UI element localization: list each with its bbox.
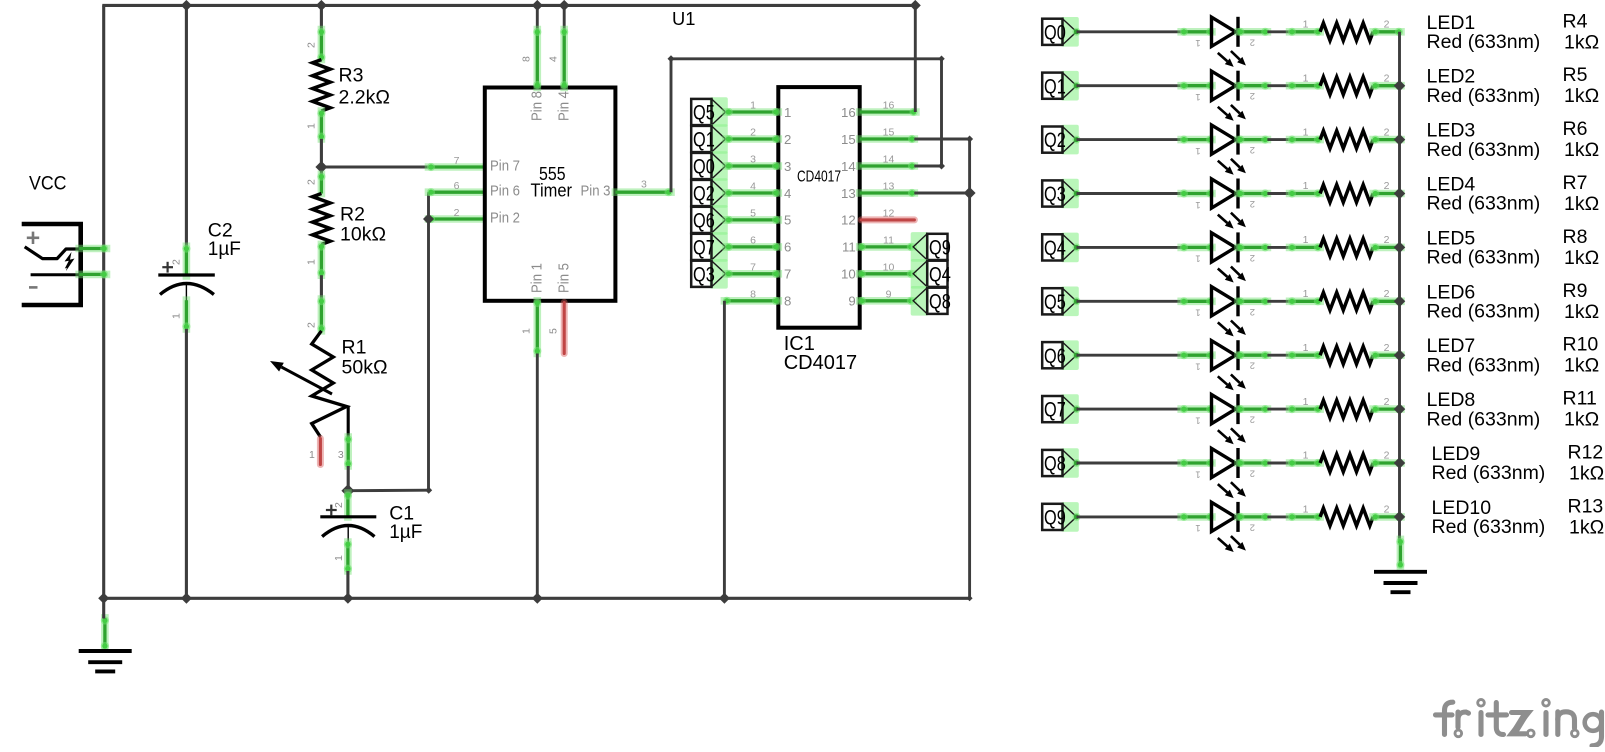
svg-text:3: 3 — [784, 159, 791, 174]
svg-text:6: 6 — [454, 180, 460, 192]
svg-text:2: 2 — [1384, 72, 1390, 84]
svg-text:R2: R2 — [340, 204, 365, 226]
svg-text:1kΩ: 1kΩ — [1569, 516, 1604, 538]
svg-text:2: 2 — [1384, 450, 1390, 462]
svg-text:Q3: Q3 — [693, 263, 715, 286]
svg-text:2: 2 — [1250, 306, 1255, 317]
svg-text:5: 5 — [547, 328, 559, 334]
svg-text:Pin 7: Pin 7 — [490, 157, 520, 174]
svg-text:4: 4 — [784, 186, 791, 201]
svg-text:5: 5 — [750, 207, 756, 219]
svg-text:9: 9 — [886, 288, 892, 300]
svg-text:2: 2 — [1250, 521, 1255, 532]
svg-text:1: 1 — [1195, 307, 1200, 318]
svg-text:Red (633nm): Red (633nm) — [1432, 516, 1546, 538]
svg-text:CD4017: CD4017 — [784, 352, 857, 374]
svg-text:10: 10 — [883, 261, 895, 273]
svg-text:1kΩ: 1kΩ — [1569, 463, 1604, 485]
svg-text:Q9: Q9 — [1044, 507, 1066, 530]
svg-text:Q4: Q4 — [1044, 237, 1066, 260]
svg-text:3: 3 — [338, 449, 344, 461]
svg-text:Q0: Q0 — [1044, 21, 1066, 44]
svg-text:2: 2 — [171, 259, 183, 265]
svg-text:1: 1 — [1303, 72, 1309, 84]
svg-text:2: 2 — [1250, 198, 1255, 209]
svg-text:1: 1 — [1195, 414, 1200, 425]
svg-text:2: 2 — [306, 42, 318, 48]
svg-text:R6: R6 — [1563, 118, 1588, 140]
svg-text:Pin 8: Pin 8 — [529, 91, 546, 121]
svg-text:Pin 4: Pin 4 — [555, 91, 572, 121]
svg-text:1: 1 — [1195, 253, 1200, 264]
svg-text:12: 12 — [883, 207, 895, 219]
svg-text:2: 2 — [750, 127, 756, 139]
svg-text:1: 1 — [1303, 19, 1309, 31]
svg-text:2: 2 — [306, 322, 318, 328]
svg-text:3: 3 — [750, 154, 756, 166]
svg-text:2: 2 — [1250, 36, 1255, 47]
svg-text:R13: R13 — [1568, 495, 1604, 517]
svg-text:5: 5 — [784, 213, 791, 228]
svg-text:Q4: Q4 — [929, 263, 951, 286]
svg-text:1: 1 — [1303, 342, 1309, 354]
svg-text:2: 2 — [454, 207, 460, 219]
svg-text:2: 2 — [1384, 342, 1390, 354]
svg-text:8: 8 — [750, 288, 756, 300]
svg-text:Red (633nm): Red (633nm) — [1427, 193, 1541, 215]
svg-text:9: 9 — [848, 294, 855, 309]
svg-text:VCC: VCC — [29, 174, 67, 195]
svg-text:1: 1 — [784, 105, 791, 120]
svg-text:10kΩ: 10kΩ — [340, 224, 386, 246]
svg-text:16: 16 — [841, 105, 856, 120]
svg-text:1: 1 — [1303, 288, 1309, 300]
svg-text:Red (633nm): Red (633nm) — [1427, 408, 1541, 430]
svg-text:2: 2 — [1384, 396, 1390, 408]
svg-text:R11: R11 — [1563, 388, 1597, 410]
svg-text:1: 1 — [1195, 199, 1200, 210]
svg-text:Red (633nm): Red (633nm) — [1427, 247, 1541, 269]
svg-text:Red (633nm): Red (633nm) — [1427, 301, 1541, 323]
svg-text:R4: R4 — [1563, 10, 1588, 32]
svg-text:1: 1 — [1195, 468, 1200, 479]
svg-text:1: 1 — [1303, 396, 1309, 408]
svg-text:1: 1 — [1195, 361, 1200, 372]
svg-text:4: 4 — [547, 56, 559, 62]
svg-text:12: 12 — [841, 213, 856, 228]
svg-text:2: 2 — [1384, 19, 1390, 31]
svg-text:Pin 5: Pin 5 — [555, 263, 572, 293]
svg-text:Q9: Q9 — [929, 237, 951, 260]
svg-text:2: 2 — [1384, 126, 1390, 138]
svg-text:R10: R10 — [1563, 334, 1599, 356]
svg-text:CD4017: CD4017 — [797, 169, 841, 186]
svg-text:2: 2 — [1384, 288, 1390, 300]
svg-text:7: 7 — [784, 267, 791, 282]
svg-text:1: 1 — [1195, 145, 1200, 156]
svg-text:1: 1 — [521, 328, 533, 334]
svg-text:Red (633nm): Red (633nm) — [1432, 462, 1546, 484]
svg-text:Q8: Q8 — [929, 290, 951, 313]
svg-text:8: 8 — [521, 56, 533, 62]
svg-text:1: 1 — [1195, 37, 1200, 48]
svg-text:Q7: Q7 — [1044, 399, 1066, 422]
svg-text:11: 11 — [883, 234, 894, 246]
svg-text:2: 2 — [1250, 360, 1255, 371]
svg-text:1kΩ: 1kΩ — [1564, 355, 1599, 377]
svg-text:14: 14 — [883, 154, 895, 166]
svg-text:Pin 3: Pin 3 — [581, 183, 611, 200]
svg-text:R12: R12 — [1568, 442, 1604, 464]
svg-text:14: 14 — [841, 159, 856, 174]
svg-text:1kΩ: 1kΩ — [1564, 85, 1599, 107]
svg-text:13: 13 — [841, 186, 856, 201]
svg-text:13: 13 — [883, 181, 895, 193]
svg-text:Pin 6: Pin 6 — [490, 183, 520, 200]
svg-text:Q2: Q2 — [693, 183, 715, 206]
svg-text:Q0: Q0 — [693, 156, 715, 179]
svg-text:1µF: 1µF — [389, 522, 422, 543]
svg-text:Red (633nm): Red (633nm) — [1427, 31, 1541, 53]
svg-text:Q5: Q5 — [1044, 291, 1066, 314]
svg-text:1: 1 — [1303, 504, 1309, 516]
svg-text:Red (633nm): Red (633nm) — [1427, 85, 1541, 107]
svg-text:2: 2 — [1250, 90, 1255, 101]
svg-text:2: 2 — [1384, 234, 1390, 246]
svg-text:Red (633nm): Red (633nm) — [1427, 354, 1541, 376]
svg-text:U1: U1 — [672, 8, 695, 29]
svg-text:1kΩ: 1kΩ — [1564, 139, 1599, 161]
svg-text:7: 7 — [454, 155, 460, 167]
svg-text:1kΩ: 1kΩ — [1564, 247, 1599, 269]
svg-text:3: 3 — [641, 179, 647, 191]
svg-text:1: 1 — [1195, 522, 1200, 533]
svg-text:2: 2 — [1250, 468, 1255, 479]
svg-text:2: 2 — [306, 179, 318, 185]
svg-text:1: 1 — [1303, 180, 1309, 192]
svg-text:1: 1 — [1303, 234, 1309, 246]
svg-text:Q7: Q7 — [693, 237, 715, 260]
svg-text:R9: R9 — [1563, 280, 1588, 302]
svg-text:1: 1 — [309, 449, 315, 461]
svg-text:2: 2 — [1250, 414, 1255, 425]
svg-text:1kΩ: 1kΩ — [1564, 31, 1599, 53]
svg-text:Q3: Q3 — [1044, 183, 1066, 206]
svg-text:15: 15 — [841, 132, 856, 147]
svg-text:Timer: Timer — [531, 181, 573, 201]
svg-text:1: 1 — [1303, 126, 1309, 138]
svg-text:10: 10 — [841, 267, 856, 282]
svg-text:6: 6 — [784, 240, 791, 255]
svg-text:1kΩ: 1kΩ — [1564, 301, 1599, 323]
svg-text:2.2kΩ: 2.2kΩ — [339, 86, 390, 108]
svg-text:50kΩ: 50kΩ — [342, 357, 388, 379]
svg-text:2: 2 — [333, 502, 345, 508]
svg-text:Pin 1: Pin 1 — [529, 263, 546, 293]
svg-text:R8: R8 — [1563, 226, 1588, 248]
svg-text:7: 7 — [750, 261, 756, 273]
svg-text:1: 1 — [1303, 450, 1309, 462]
svg-text:Q6: Q6 — [1044, 345, 1066, 368]
svg-text:2: 2 — [1384, 504, 1390, 516]
svg-text:1kΩ: 1kΩ — [1564, 409, 1599, 431]
svg-text:Q5: Q5 — [693, 102, 715, 125]
svg-text:2: 2 — [784, 132, 791, 147]
svg-text:R7: R7 — [1563, 172, 1588, 194]
svg-text:1: 1 — [171, 313, 183, 319]
svg-text:1: 1 — [306, 123, 318, 129]
svg-text:6: 6 — [750, 234, 756, 246]
svg-text:Q6: Q6 — [693, 210, 715, 233]
svg-text:11: 11 — [842, 240, 856, 255]
svg-text:1kΩ: 1kΩ — [1564, 193, 1599, 215]
svg-text:Q2: Q2 — [1044, 129, 1066, 152]
svg-text:2: 2 — [1384, 180, 1390, 192]
svg-text:15: 15 — [883, 127, 895, 139]
svg-text:1: 1 — [1195, 91, 1200, 102]
svg-text:Red (633nm): Red (633nm) — [1427, 139, 1541, 161]
svg-text:R3: R3 — [339, 65, 364, 87]
svg-text:1µF: 1µF — [208, 239, 241, 260]
svg-text:Q1: Q1 — [693, 129, 715, 152]
svg-text:2: 2 — [1250, 144, 1255, 155]
svg-text:R5: R5 — [1563, 64, 1588, 86]
svg-text:16: 16 — [883, 100, 895, 112]
svg-text:Q1: Q1 — [1044, 75, 1066, 98]
svg-text:4: 4 — [750, 181, 756, 193]
svg-text:8: 8 — [784, 294, 791, 309]
svg-text:1: 1 — [333, 555, 345, 561]
svg-text:1: 1 — [750, 100, 756, 112]
svg-text:1: 1 — [306, 259, 318, 265]
svg-text:R1: R1 — [342, 337, 367, 359]
svg-text:2: 2 — [1250, 252, 1255, 263]
svg-text:Q8: Q8 — [1044, 453, 1066, 476]
svg-text:Pin 2: Pin 2 — [490, 209, 520, 226]
